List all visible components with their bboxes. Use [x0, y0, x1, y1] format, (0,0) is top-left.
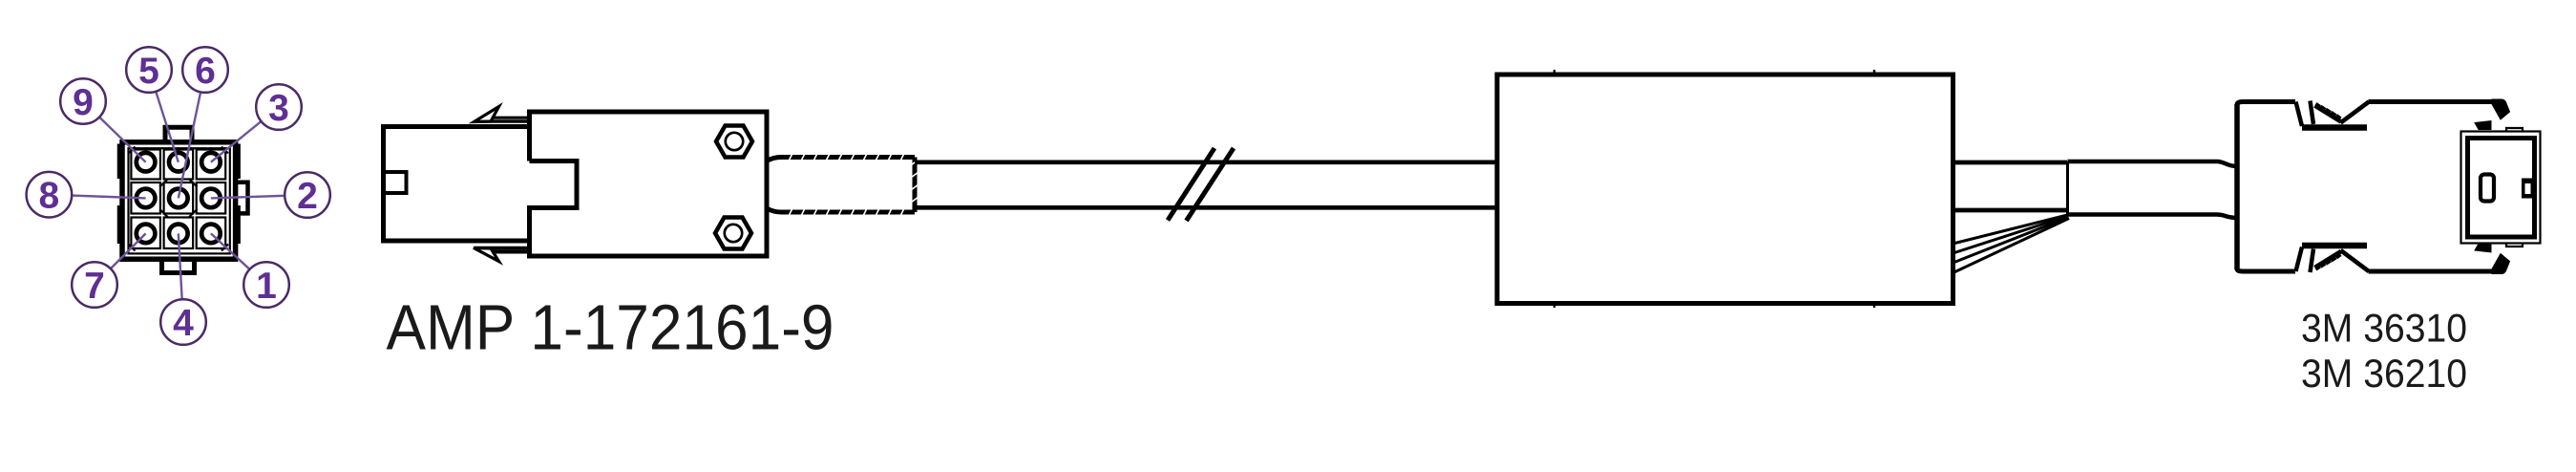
keyway notch [384, 172, 407, 193]
rear housing with cavity [530, 112, 768, 256]
top latch recess floor [2302, 124, 2367, 131]
right tab window [2525, 183, 2531, 194]
svg-text:6: 6 [195, 51, 216, 92]
balloon 4 [160, 299, 206, 345]
top latch lever arm [2341, 102, 2370, 123]
top pad [2475, 121, 2491, 130]
leader 1 [211, 233, 266, 285]
3M connector body [2237, 99, 2510, 274]
leader 7 [95, 233, 146, 285]
boot end edge [913, 158, 918, 213]
mating housing [384, 127, 530, 242]
screw nut bottom circle [725, 225, 742, 242]
leader 9 [83, 101, 146, 162]
pin 2 contact [201, 189, 221, 208]
bottom latch recess left slants [2296, 247, 2303, 272]
right tab [2522, 179, 2536, 199]
svg-text:7: 7 [84, 266, 105, 307]
leader 5 [149, 70, 179, 162]
balloon 5 [126, 47, 172, 93]
top latch serrated lever [2315, 106, 2342, 122]
pin 4 contact [169, 225, 188, 244]
right polarizing tab [236, 182, 248, 214]
top latch beam [485, 117, 530, 119]
boot top edge [767, 158, 915, 161]
boot bottom edge [767, 208, 915, 212]
3M boot [2068, 161, 2238, 218]
wire fan-out [1953, 215, 2070, 273]
balloon 7 [72, 262, 117, 308]
bottom latch arrow [474, 248, 499, 262]
pin 6 contact [169, 189, 188, 208]
svg-text:2: 2 [297, 176, 318, 217]
cable break symbol [1168, 148, 1234, 221]
body bottom edge right [2369, 269, 2493, 274]
top latch arrow [475, 107, 499, 122]
pin numbers text [39, 51, 318, 344]
center slot [2481, 175, 2494, 202]
bottom polarizing tab [162, 259, 195, 272]
fold tick marks [1554, 70, 1874, 308]
svg-text:4: 4 [173, 303, 194, 344]
cavity corner chamfers [129, 147, 229, 251]
leader 2 [211, 195, 307, 198]
top right barb [2492, 99, 2510, 119]
cavity cells [131, 150, 160, 180]
balloon 2 [285, 172, 330, 218]
balloon 6 [182, 47, 228, 93]
top polarizing tab [165, 127, 192, 142]
cable left segment bottom [915, 205, 1497, 210]
connector J1 face view body [119, 127, 248, 272]
balloon 1 [243, 262, 289, 308]
leader 3 [211, 107, 279, 162]
screw nut bottom hex [715, 218, 751, 249]
leader 4 [179, 233, 183, 322]
svg-text:5: 5 [138, 51, 159, 92]
svg-text:3: 3 [268, 88, 289, 129]
cable right segment bottom [1953, 208, 2068, 213]
pin 1 contact [201, 225, 221, 244]
body top edge right [2369, 99, 2493, 104]
leader 6 [179, 70, 205, 198]
screw nut top circle [726, 133, 743, 150]
balloon 8 [27, 172, 73, 218]
bottom latch beam [485, 249, 530, 253]
AMP plug side view [384, 107, 768, 262]
pin contacts 3x3 [137, 153, 221, 243]
boot hatch slashes [788, 152, 920, 219]
body left edge [2234, 104, 2240, 269]
bottom latch recess floor [2302, 243, 2367, 249]
top latch recess left slants [2296, 102, 2303, 127]
ferrule outer shell [2461, 132, 2541, 244]
cable right segment top [1953, 161, 2068, 165]
body bottom edge left [2237, 268, 2295, 271]
pin 8 contact [137, 189, 156, 208]
ferrule inner shell [2468, 139, 2535, 238]
pin number balloons [27, 47, 330, 345]
screw nut top hex [716, 126, 752, 158]
svg-text:AMP 1-172161-9: AMP 1-172161-9 [387, 291, 834, 363]
svg-text:3M 36310: 3M 36310 [2301, 305, 2467, 350]
bottom latch serrated lever [2315, 251, 2342, 268]
right edge ribs [236, 144, 241, 245]
svg-text:3M 36210: 3M 36210 [2301, 351, 2467, 396]
cable left segment top [915, 160, 1497, 164]
balloon 3 [256, 84, 302, 130]
left edge ribs [117, 144, 122, 245]
bottom right barb [2492, 254, 2510, 274]
bottom latch lever arm [2341, 250, 2370, 271]
label box [1497, 70, 1953, 308]
pin 7 contact [137, 225, 156, 244]
leader 8 [49, 195, 145, 199]
pin number leader lines [49, 70, 307, 322]
inner housing wall [129, 148, 230, 253]
svg-text:8: 8 [39, 176, 60, 217]
svg-text:1: 1 [256, 266, 277, 307]
pin 9 contact [137, 153, 156, 172]
pin 3 contact [201, 153, 221, 172]
svg-text:9: 9 [73, 82, 94, 123]
top bump [2506, 128, 2523, 132]
3M ferrule [2461, 128, 2541, 247]
strain relief boot (hatched) [767, 152, 920, 219]
pin 5 contact [169, 153, 188, 172]
housing outline [122, 142, 236, 259]
balloon 9 [60, 78, 106, 124]
body top edge left [2237, 102, 2295, 106]
bottom pad [2475, 244, 2491, 252]
bottom bump [2506, 244, 2523, 247]
